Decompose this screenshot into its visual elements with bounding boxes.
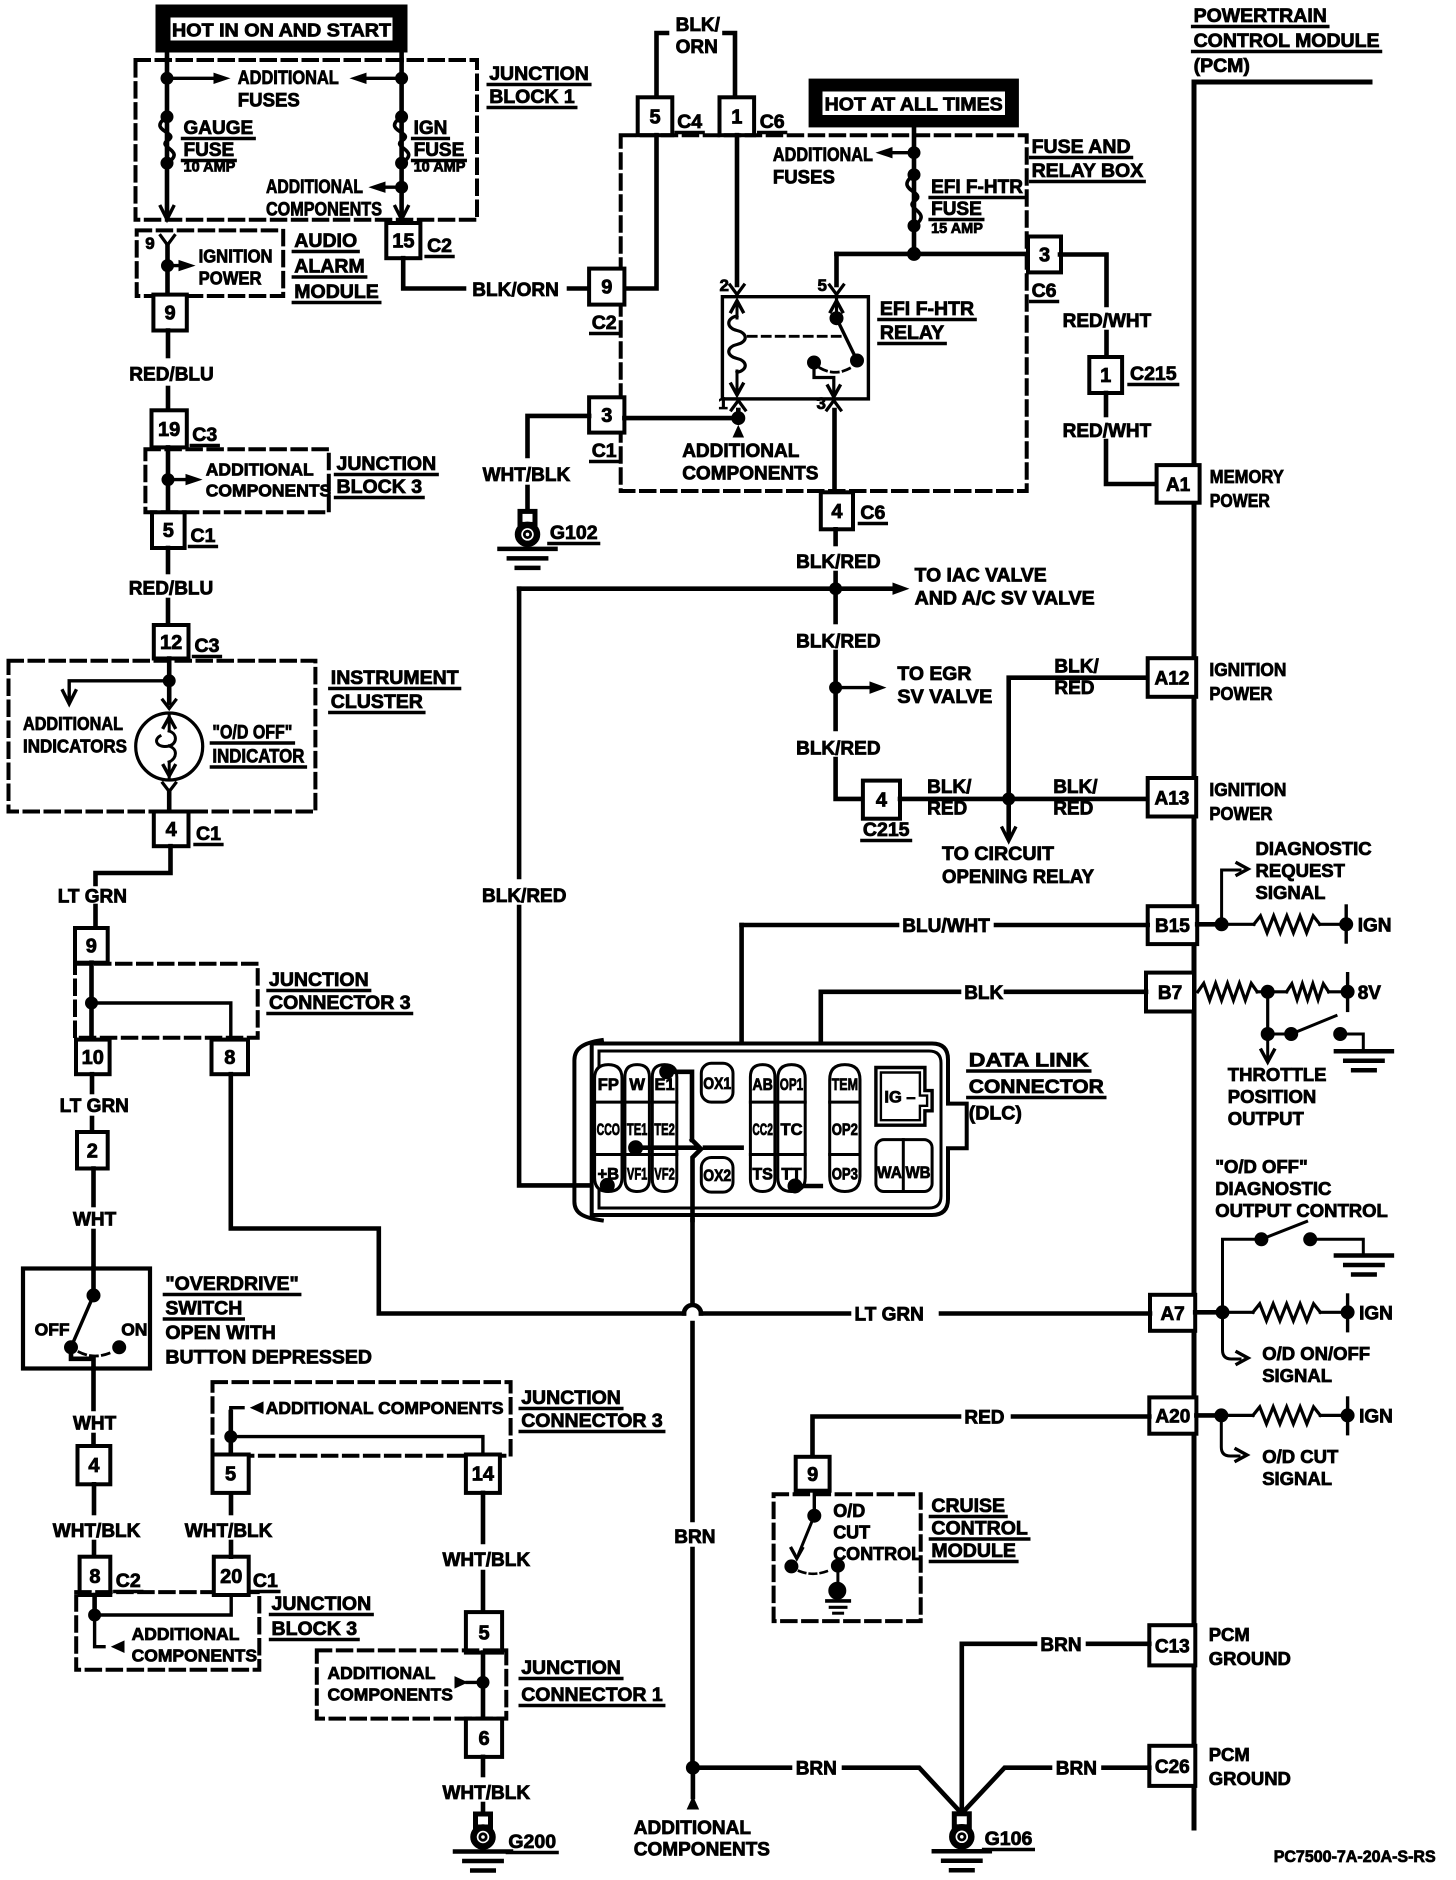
label RED/BLU (lower) bbox=[129, 579, 213, 600]
fuse EFI F-HTR FUSE symbol bbox=[907, 175, 921, 226]
svg-text:SV VALVE: SV VALVE bbox=[897, 687, 992, 708]
svg-text:15 AMP: 15 AMP bbox=[931, 221, 983, 237]
wire to IAC valve with node bbox=[519, 586, 899, 591]
label MEMORY POWER bbox=[1210, 466, 1285, 511]
label IGN (A7) bbox=[1359, 1304, 1393, 1325]
svg-text:B7: B7 bbox=[1158, 983, 1182, 1004]
svg-text:5: 5 bbox=[649, 106, 660, 128]
wire BRN vertical (E1 to ground node) bbox=[690, 1220, 695, 1304]
svg-text:LT GRN: LT GRN bbox=[855, 1305, 924, 1326]
label LT GRN (upper) bbox=[58, 887, 127, 908]
O/D OFF diagnostic switch bbox=[1223, 1222, 1364, 1313]
wire JB1 gauge fuse stub from header bbox=[165, 52, 170, 60]
connector box 15 C2 bbox=[386, 223, 420, 258]
svg-text:2: 2 bbox=[720, 276, 729, 295]
svg-text:RED/WHT: RED/WHT bbox=[1063, 311, 1152, 332]
svg-text:LT GRN: LT GRN bbox=[58, 887, 127, 908]
DLC pins FP/CCO/+B bbox=[595, 1065, 622, 1192]
svg-text:COMPONENTS: COMPONENTS bbox=[132, 1646, 257, 1666]
svg-text:GAUGE: GAUGE bbox=[184, 118, 254, 139]
wire JB1 gauge fuse vertical bbox=[165, 60, 170, 214]
svg-text:CONTROL: CONTROL bbox=[931, 1518, 1027, 1540]
wire RED/BLU lower (stub a) bbox=[166, 548, 171, 572]
ground (throttle position) bbox=[1336, 1051, 1392, 1070]
wire WHT/BLK (G200) stub a bbox=[481, 1757, 486, 1775]
connector box 3 C1 bbox=[589, 397, 624, 432]
svg-text:BLK/: BLK/ bbox=[1054, 657, 1099, 678]
wire junction up to A12 bbox=[1009, 678, 1148, 799]
svg-text:G102: G102 bbox=[550, 522, 598, 544]
svg-text:JUNCTION: JUNCTION bbox=[521, 1387, 621, 1409]
svg-text:BLK/ORN: BLK/ORN bbox=[472, 280, 559, 301]
svg-text:C215: C215 bbox=[863, 819, 910, 841]
svg-text:BLK/RED: BLK/RED bbox=[796, 552, 880, 573]
resistor B7 second bbox=[1287, 984, 1329, 1000]
junction connector 3 upper outline bbox=[75, 964, 258, 1038]
label BLK/RED (3) bbox=[796, 739, 880, 760]
svg-text:C1: C1 bbox=[191, 525, 216, 547]
svg-text:REQUEST: REQUEST bbox=[1256, 860, 1346, 881]
label PCM GROUND (C26) bbox=[1209, 1744, 1291, 1789]
svg-text:DIAGNOSTIC: DIAGNOSTIC bbox=[1256, 838, 1372, 859]
label JUNCTION BLOCK 1 bbox=[488, 63, 590, 108]
connector box 5 (JC1) bbox=[466, 1612, 502, 1653]
svg-text:VF1: VF1 bbox=[627, 1166, 648, 1184]
connector box 12 C3 bbox=[154, 625, 189, 659]
label IGN (B15) bbox=[1358, 916, 1392, 937]
svg-text:SIGNAL: SIGNAL bbox=[1262, 1365, 1332, 1386]
connector box 20 C1 bbox=[214, 1557, 249, 1595]
label C1 (box 4) bbox=[195, 823, 222, 845]
svg-text:WHT: WHT bbox=[73, 1414, 117, 1435]
wire through JB3 upper bbox=[166, 447, 171, 512]
node A7 junction bbox=[1195, 1310, 1222, 1315]
svg-text:ADDITIONAL: ADDITIONAL bbox=[238, 68, 339, 89]
svg-text:COMPONENTS: COMPONENTS bbox=[328, 1685, 453, 1705]
wire through JB3 lower + node bbox=[92, 1595, 97, 1615]
arrow ignition power bbox=[168, 264, 187, 267]
svg-text:FUSE: FUSE bbox=[931, 199, 982, 220]
label WHT/BLK (mid) bbox=[185, 1521, 273, 1542]
arrow additional components (JC1) bbox=[467, 1681, 483, 1684]
label RED/BLU (upper) bbox=[129, 365, 213, 386]
svg-text:OP3: OP3 bbox=[832, 1166, 858, 1184]
svg-text:C6: C6 bbox=[760, 111, 785, 133]
svg-text:WHT/BLK: WHT/BLK bbox=[443, 1783, 531, 1804]
svg-text:PCM: PCM bbox=[1209, 1744, 1250, 1765]
svg-text:4: 4 bbox=[88, 1455, 100, 1477]
svg-text:FUSE AND: FUSE AND bbox=[1032, 136, 1131, 158]
svg-text:10 AMP: 10 AMP bbox=[184, 160, 236, 176]
svg-text:DIAGNOSTIC: DIAGNOSTIC bbox=[1215, 1178, 1331, 1199]
wire WHT/BLK from 3 C1 bbox=[528, 416, 590, 456]
label ADDITIONAL COMPONENTS (JC1) bbox=[328, 1663, 453, 1705]
svg-text:G106: G106 bbox=[985, 1828, 1033, 1850]
svg-text:OUTPUT CONTROL: OUTPUT CONTROL bbox=[1215, 1200, 1388, 1221]
wire into cluster + junction node bbox=[167, 659, 172, 684]
wire WHT/BLK mid stub b bbox=[229, 1493, 234, 1513]
svg-text:C26: C26 bbox=[1155, 1757, 1190, 1778]
label LT GRN (A7) bbox=[855, 1305, 924, 1326]
wire BLK/RED stub to IAC node bbox=[833, 573, 838, 589]
overdrive switch box bbox=[23, 1269, 150, 1369]
wire BLK/ORN left drop bbox=[657, 33, 668, 97]
svg-text:TE2: TE2 bbox=[654, 1121, 675, 1139]
svg-text:POWER: POWER bbox=[199, 268, 262, 289]
svg-text:RED/WHT: RED/WHT bbox=[1063, 421, 1152, 442]
label PC7500-7A-20A-S-RS bbox=[1274, 1847, 1436, 1866]
label 15 AMP bbox=[931, 221, 983, 237]
label O/D OFF INDICATOR bbox=[211, 723, 305, 768]
label WHT/BLK (left) bbox=[53, 1521, 141, 1542]
svg-text:B15: B15 bbox=[1155, 916, 1190, 937]
header HOT AT ALL TIMES bbox=[809, 79, 1018, 127]
label ADDITIONAL COMPONENTS (relay box) bbox=[682, 441, 818, 485]
svg-text:POWER: POWER bbox=[1210, 490, 1270, 511]
label C3 (box 12) bbox=[194, 635, 221, 657]
ground G106 bbox=[934, 1814, 990, 1871]
label BLK/ORN (top) bbox=[676, 15, 721, 58]
connector box 14 bbox=[466, 1455, 500, 1493]
svg-text:CONNECTOR: CONNECTOR bbox=[969, 1076, 1104, 1098]
cruise control module outline bbox=[774, 1494, 921, 1621]
label O/D OFF DIAGNOSTIC OUTPUT CONTROL bbox=[1215, 1156, 1388, 1221]
label C6 (box 3) bbox=[1031, 280, 1058, 302]
connector box 8 C2 bbox=[80, 1557, 111, 1595]
svg-text:HOT AT ALL TIMES: HOT AT ALL TIMES bbox=[825, 95, 1003, 115]
label WHT/BLK (G102) bbox=[483, 465, 571, 486]
svg-text:OP1: OP1 bbox=[780, 1076, 803, 1094]
svg-text:BUTTON DEPRESSED: BUTTON DEPRESSED bbox=[165, 1347, 372, 1369]
ground G102 bbox=[500, 511, 556, 568]
relay pin 1 terminal fork bbox=[731, 401, 745, 411]
label G200 bbox=[507, 1831, 557, 1853]
PCM pin A13 bbox=[1148, 778, 1197, 817]
svg-text:C6: C6 bbox=[1032, 280, 1057, 302]
svg-text:9: 9 bbox=[165, 303, 176, 325]
svg-text:9: 9 bbox=[807, 1464, 818, 1486]
pin 9 terminal fork (audio alarm module) bbox=[161, 236, 175, 246]
label C1 (box 5) bbox=[190, 525, 217, 547]
svg-text:BRN: BRN bbox=[1040, 1635, 1081, 1656]
overdrive switch internals bbox=[65, 1269, 126, 1369]
label JUNCTION CONNECTOR 3 (upper) bbox=[268, 969, 412, 1014]
svg-text:C215: C215 bbox=[1130, 363, 1177, 385]
svg-text:OFF: OFF bbox=[35, 1320, 70, 1340]
label C3 (box 19) bbox=[191, 424, 218, 446]
wire RED/WHT to A1 bbox=[1106, 441, 1157, 484]
PCM pin C13 bbox=[1149, 1625, 1195, 1665]
svg-text:1: 1 bbox=[731, 106, 742, 128]
svg-text:CONTROL: CONTROL bbox=[833, 1544, 922, 1564]
svg-text:C13: C13 bbox=[1155, 1636, 1190, 1657]
wire BRN from G106 to C26 bbox=[965, 1768, 1050, 1810]
instrument cluster outline bbox=[9, 661, 316, 812]
label WHT/BLK (G200) bbox=[443, 1783, 531, 1804]
wire BLK/RED stub below 4 C6 bbox=[833, 529, 838, 544]
arrow additional components (JC3 bottom) bbox=[231, 1408, 243, 1437]
label LT GRN (lower) bbox=[60, 1096, 129, 1117]
wire relay pin 1 junction bbox=[624, 416, 738, 421]
svg-text:3: 3 bbox=[601, 405, 612, 427]
svg-text:VF2: VF2 bbox=[654, 1166, 675, 1184]
connector box 10 bbox=[76, 1040, 110, 1075]
svg-text:9: 9 bbox=[86, 935, 97, 957]
label RED bbox=[964, 1408, 1004, 1429]
svg-text:BLK/: BLK/ bbox=[676, 15, 721, 36]
wire LT GRN lower stub a bbox=[90, 1074, 95, 1092]
arrow to additional fuses (left) bbox=[167, 77, 222, 80]
label BLK/RED (4) bbox=[927, 777, 972, 820]
wire RED/WHT stub c bbox=[1104, 393, 1109, 415]
svg-text:SIGNAL: SIGNAL bbox=[1262, 1468, 1332, 1489]
wire JB1 ign fuse vertical bbox=[399, 60, 404, 214]
svg-text:5: 5 bbox=[478, 1622, 489, 1644]
svg-text:COMPONENTS: COMPONENTS bbox=[682, 464, 818, 485]
svg-text:(PCM): (PCM) bbox=[1194, 55, 1250, 77]
svg-text:CCO: CCO bbox=[597, 1121, 621, 1139]
junction block 3 lower outline bbox=[76, 1592, 259, 1670]
PCM pin A12 bbox=[1148, 658, 1197, 697]
DLC pins TEM/OP2/OP3 bbox=[830, 1065, 860, 1192]
label G106 bbox=[984, 1828, 1034, 1850]
relay internal dashed link bbox=[748, 335, 840, 338]
label OVERDRIVE SWITCH bbox=[164, 1273, 372, 1369]
wire BRN bottom to G106 bbox=[693, 1765, 790, 1770]
svg-text:BLU/WHT: BLU/WHT bbox=[902, 916, 990, 937]
svg-text:12: 12 bbox=[160, 632, 182, 654]
svg-text:2: 2 bbox=[87, 1140, 98, 1162]
svg-text:10 AMP: 10 AMP bbox=[414, 160, 466, 176]
svg-text:EFI F-HTR: EFI F-HTR bbox=[931, 177, 1023, 198]
svg-text:FUSE: FUSE bbox=[184, 140, 235, 161]
DLC pin IG- bbox=[876, 1068, 932, 1126]
label BLK/RED (2) bbox=[796, 632, 880, 653]
wire to EGR valve node bbox=[830, 682, 842, 694]
svg-text:C3: C3 bbox=[195, 635, 220, 657]
label C1 (box 3) bbox=[591, 440, 618, 462]
svg-text:POSITION: POSITION bbox=[1228, 1086, 1316, 1107]
junction connector 1 outline bbox=[317, 1650, 507, 1718]
arrow O/D ON/OFF signal bbox=[1223, 1312, 1241, 1359]
DLC pin OX1 bbox=[701, 1063, 733, 1102]
node DLC TT + wire to BLK bbox=[788, 1179, 802, 1193]
label 10 AMP (ign) bbox=[414, 160, 466, 176]
connector box 3 C6 bbox=[1028, 237, 1061, 273]
svg-text:CONNECTOR 1: CONNECTOR 1 bbox=[521, 1684, 663, 1706]
label IGN (A20) bbox=[1359, 1407, 1393, 1428]
wire BLU/WHT drop to DLC TE1 bbox=[739, 925, 744, 1148]
node IGN (B15) bbox=[1344, 906, 1347, 942]
arrow to additional components (JB1) bbox=[377, 185, 402, 188]
svg-text:BLK: BLK bbox=[964, 983, 1003, 1004]
label JUNCTION CONNECTOR 3 (bottom) bbox=[520, 1387, 664, 1432]
svg-text:BLOCK 1: BLOCK 1 bbox=[489, 86, 575, 108]
svg-text:BLK/RED: BLK/RED bbox=[482, 886, 566, 907]
svg-text:MODULE: MODULE bbox=[931, 1540, 1016, 1562]
svg-text:COMPONENTS: COMPONENTS bbox=[266, 200, 382, 221]
label BLK/RED (left drop) bbox=[482, 886, 566, 907]
connector box 9 (audio alarm) bbox=[153, 295, 186, 331]
label WHT (upper) bbox=[73, 1210, 117, 1231]
label BLK/RED (5) bbox=[1053, 777, 1098, 820]
svg-text:O/D: O/D bbox=[833, 1501, 865, 1521]
svg-text:5: 5 bbox=[163, 520, 174, 542]
label C6 (box 1) bbox=[759, 111, 786, 133]
relay pin 2 terminal fork bbox=[730, 285, 744, 295]
lamp O/D OFF indicator bbox=[136, 681, 203, 812]
svg-text:OPENING RELAY: OPENING RELAY bbox=[942, 867, 1094, 888]
label CRUISE CONTROL MODULE bbox=[930, 1495, 1028, 1562]
svg-text:AUDIO: AUDIO bbox=[294, 230, 357, 252]
wire BRN to C13 bbox=[962, 1644, 1035, 1814]
svg-text:C1: C1 bbox=[592, 440, 617, 462]
wire WHT/BLK left stub a bbox=[92, 1484, 97, 1513]
svg-text:ADDITIONAL: ADDITIONAL bbox=[266, 177, 363, 198]
svg-text:IGNITION: IGNITION bbox=[1209, 659, 1286, 680]
label BLK/ORN bbox=[472, 280, 559, 301]
PCM pin A1 bbox=[1157, 465, 1200, 503]
label ADDITIONAL FUSES (relay box) bbox=[773, 145, 873, 189]
svg-text:4: 4 bbox=[876, 790, 888, 812]
svg-text:OX1: OX1 bbox=[703, 1075, 731, 1093]
wire WHT/BLK (14) stub b bbox=[481, 1572, 486, 1612]
wire RED/WHT stub b bbox=[1104, 332, 1109, 357]
svg-text:BRN: BRN bbox=[1056, 1759, 1097, 1780]
svg-text:A20: A20 bbox=[1155, 1407, 1190, 1428]
wire BLK drop to DLC TT bbox=[818, 992, 823, 1186]
label O/D CUT CONTROL bbox=[833, 1501, 922, 1564]
svg-text:ADDITIONAL: ADDITIONAL bbox=[328, 1663, 436, 1683]
label ADDITIONAL INDICATORS bbox=[23, 713, 127, 757]
svg-text:TS: TS bbox=[752, 1166, 773, 1184]
DLC pins WA/WB bbox=[876, 1140, 932, 1192]
svg-text:C4: C4 bbox=[677, 111, 702, 133]
wire WHT/BLK (14) stub a bbox=[481, 1493, 486, 1542]
svg-text:A7: A7 bbox=[1160, 1304, 1184, 1325]
svg-text:COMPONENTS: COMPONENTS bbox=[206, 481, 331, 501]
fuse GAUGE FUSE 10 AMP symbol bbox=[160, 117, 174, 163]
resistor B15-IGN bbox=[1222, 923, 1254, 926]
svg-text:IGN: IGN bbox=[414, 118, 448, 139]
wire 3 C6 to C215 corner bbox=[1060, 255, 1107, 306]
wire ignition power (inside AAM) bbox=[165, 245, 170, 296]
wire RED/BLU lower (stub b) bbox=[166, 600, 171, 625]
label IGNITION POWER bbox=[199, 246, 273, 289]
svg-text:20: 20 bbox=[220, 1566, 242, 1588]
svg-text:ADDITIONAL: ADDITIONAL bbox=[682, 441, 800, 462]
svg-text:4: 4 bbox=[166, 819, 178, 841]
label BLK bbox=[964, 983, 1003, 1004]
label IGN FUSE bbox=[413, 118, 466, 161]
svg-text:RED/BLU: RED/BLU bbox=[129, 579, 213, 600]
svg-text:19: 19 bbox=[158, 419, 180, 441]
svg-text:ADDITIONAL: ADDITIONAL bbox=[206, 460, 314, 480]
label DATA LINK CONNECTOR (DLC) bbox=[968, 1050, 1105, 1125]
svg-text:CONTROL MODULE: CONTROL MODULE bbox=[1194, 30, 1380, 52]
PCM pin B7 bbox=[1146, 973, 1194, 1012]
svg-text:CONNECTOR 3: CONNECTOR 3 bbox=[269, 992, 411, 1014]
wire from 1 C6 to relay coil bbox=[735, 135, 740, 285]
svg-text:BLK/RED: BLK/RED bbox=[796, 739, 880, 760]
wire BLK/RED stub 4 bbox=[833, 688, 838, 729]
connector box 4 (overdrive) bbox=[78, 1446, 111, 1484]
svg-text:BLK/: BLK/ bbox=[1053, 777, 1098, 798]
PCM pin B15 bbox=[1148, 906, 1198, 944]
svg-text:GROUND: GROUND bbox=[1209, 1768, 1291, 1789]
wire WHT/BLK left stub b bbox=[92, 1542, 97, 1557]
svg-text:OPEN WITH: OPEN WITH bbox=[165, 1322, 276, 1344]
svg-text:BRN: BRN bbox=[674, 1527, 715, 1548]
svg-text:COMPONENTS: COMPONENTS bbox=[634, 1840, 770, 1861]
wire JC3 branch to pin 8 bbox=[92, 1003, 231, 1040]
svg-text:POWER: POWER bbox=[1209, 683, 1272, 704]
connector box 5 C1 bbox=[152, 512, 185, 548]
node BRN junction + arrow additional components bbox=[686, 1761, 699, 1774]
wire BLK/ORN from 15 C2 stub bbox=[403, 258, 464, 288]
label RED/WHT (upper) bbox=[1063, 311, 1152, 332]
label G102 bbox=[549, 522, 599, 544]
DLC pins W/TE1/VF1 bbox=[625, 1065, 650, 1192]
svg-text:CUT: CUT bbox=[833, 1523, 870, 1543]
label C2 (box 15) bbox=[426, 235, 453, 257]
svg-text:ADDITIONAL: ADDITIONAL bbox=[132, 1624, 240, 1644]
svg-text:RELAY: RELAY bbox=[880, 322, 944, 344]
wire BLK/ORN into 9 C2 bbox=[569, 286, 589, 291]
svg-text:AND A/C SV VALVE: AND A/C SV VALVE bbox=[915, 589, 1095, 610]
svg-text:RELAY BOX: RELAY BOX bbox=[1032, 160, 1144, 182]
wire BLK/RED stub 5 to 4 C215 bbox=[836, 759, 863, 799]
PCM pin A7 bbox=[1150, 1295, 1195, 1331]
svg-text:EFI F-HTR: EFI F-HTR bbox=[880, 298, 974, 320]
svg-text:RED: RED bbox=[1054, 678, 1094, 699]
resistor A20-IGN bbox=[1221, 1414, 1253, 1417]
label DIAGNOSTIC REQUEST SIGNAL bbox=[1256, 838, 1372, 903]
label BLU/WHT bbox=[902, 916, 990, 937]
label IGNITION POWER (A13) bbox=[1209, 779, 1286, 824]
svg-text:OP2: OP2 bbox=[832, 1121, 858, 1139]
svg-text:SWITCH: SWITCH bbox=[165, 1298, 242, 1320]
label JUNCTION BLOCK 3 (lower) bbox=[271, 1593, 373, 1640]
connector box 9 (JC3) bbox=[75, 928, 108, 963]
svg-text:FUSE: FUSE bbox=[414, 140, 465, 161]
PCM pin C26 bbox=[1149, 1746, 1195, 1786]
svg-text:IGNITION: IGNITION bbox=[199, 246, 273, 267]
fuse and relay box outline bbox=[621, 135, 1027, 491]
svg-text:C3: C3 bbox=[192, 424, 217, 446]
svg-text:ADDITIONAL: ADDITIONAL bbox=[23, 713, 123, 734]
connector box 6 bbox=[466, 1719, 502, 1757]
svg-text:TO CIRCUIT: TO CIRCUIT bbox=[942, 844, 1054, 865]
header HOT IN ON AND START bbox=[156, 5, 407, 52]
label C4 bbox=[676, 111, 703, 133]
wire WHT lower stub a bbox=[91, 1369, 96, 1410]
svg-text:MEMORY: MEMORY bbox=[1210, 466, 1285, 487]
label EFI F-HTR FUSE bbox=[930, 177, 1024, 220]
label 8V bbox=[1358, 983, 1382, 1004]
connector box 19 C3 bbox=[152, 410, 187, 447]
svg-text:RED: RED bbox=[1053, 799, 1093, 820]
relay switch contacts bbox=[808, 297, 864, 399]
label C2 (box 8) bbox=[115, 1570, 142, 1592]
svg-text:5: 5 bbox=[225, 1464, 236, 1486]
wire WHT/BLK to G102 stub bbox=[525, 487, 530, 511]
connector box 1 C215 bbox=[1089, 357, 1122, 393]
label O/D CUT SIGNAL bbox=[1262, 1446, 1339, 1489]
label JUNCTION BLOCK 3 (upper) bbox=[336, 453, 438, 498]
svg-text:BRN: BRN bbox=[796, 1759, 837, 1780]
svg-text:INDICATOR: INDICATOR bbox=[212, 747, 304, 768]
